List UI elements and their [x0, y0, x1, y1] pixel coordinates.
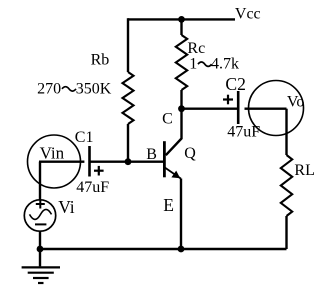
- svg-text:350K: 350K: [76, 81, 112, 98]
- svg-text:47uF: 47uF: [76, 179, 109, 196]
- svg-text:Vin: Vin: [40, 144, 65, 163]
- svg-text:Vi: Vi: [58, 197, 75, 217]
- svg-text:E: E: [163, 195, 174, 215]
- svg-text:C1: C1: [75, 129, 94, 146]
- svg-text:C: C: [162, 111, 173, 128]
- svg-text:Vcc: Vcc: [235, 5, 261, 22]
- svg-text:270: 270: [37, 81, 61, 98]
- svg-text:1: 1: [189, 56, 197, 73]
- svg-text:RL: RL: [294, 162, 314, 179]
- svg-text:C2: C2: [225, 74, 246, 94]
- svg-text:Rb: Rb: [91, 51, 110, 68]
- svg-text:47uF: 47uF: [227, 124, 260, 141]
- svg-text:B: B: [146, 146, 157, 163]
- svg-text:Q: Q: [184, 145, 196, 162]
- svg-text:Vo: Vo: [287, 93, 305, 110]
- svg-text:4.7k: 4.7k: [211, 56, 239, 73]
